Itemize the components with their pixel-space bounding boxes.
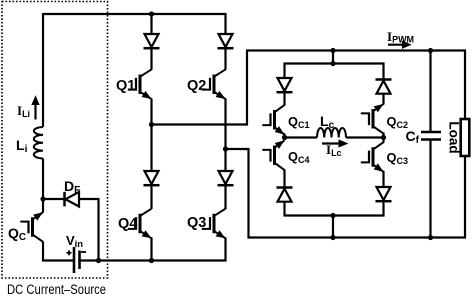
wire Q2 midpoint to bottom rail <box>226 148 250 150</box>
transistor Q4 (IGBT) <box>128 209 152 239</box>
wire Q2 emitter to midpoint <box>224 99 226 151</box>
wire midpoint rail to output riser <box>152 123 249 125</box>
wire left vertical from top rail to Li <box>42 13 44 127</box>
inductor Lc <box>317 128 346 138</box>
transistor QC4 (IGBT) <box>262 140 284 170</box>
wire battery to Q4/Q3 legs bottom <box>81 259 227 261</box>
wire diode to Q3 collector <box>224 186 226 210</box>
wire inner bottom riser <box>332 216 334 238</box>
svg-text:Q1: Q1 <box>116 78 135 94</box>
wire Q4 emitter to bottom <box>150 238 152 262</box>
node Cf bottom junction <box>428 235 433 240</box>
node bottom rail / inner riser junction <box>330 235 335 240</box>
wire Q1 leg top <box>150 14 152 35</box>
node inner bridge left midpoint <box>282 135 287 140</box>
wire diode to QC2 emitter <box>382 93 384 104</box>
svg-text:Q4: Q4 <box>118 216 137 232</box>
node output rail / inner bridge riser <box>330 48 335 53</box>
diode above QC1 <box>277 78 293 92</box>
svg-text:Q3: Q3 <box>187 215 206 231</box>
current arrow ILc <box>322 140 347 147</box>
transistor QC (IGBT) <box>20 212 43 242</box>
node top rail / Q1 leg junction <box>149 11 154 16</box>
node inner bridge top rail junction <box>330 61 335 66</box>
diode below QC3 <box>376 187 392 201</box>
wire inner top rail right corner down <box>382 63 384 80</box>
wire QC3 emitter to lower diode <box>382 171 384 188</box>
inductor Li <box>34 127 43 159</box>
diode above Q2 <box>218 34 234 48</box>
wire diode to inner bottom rail <box>283 202 285 217</box>
transistor QC1 (IGBT) <box>262 105 284 135</box>
transistor Q3 (IGBT) <box>202 209 226 239</box>
wire QC1 emitter to left node <box>283 134 285 139</box>
wire Q3 emitter to bottom <box>224 238 226 262</box>
wire diode to Q2 collector <box>224 49 226 70</box>
wire midpoint to Q3 diode <box>224 149 226 172</box>
wire DF anode to right side down to Vin rail <box>79 198 100 200</box>
wire inner bridge riser <box>332 51 334 64</box>
battery Vin <box>67 247 87 273</box>
wire bottom rail <box>248 236 467 238</box>
wire midpoint to Q4 diode <box>150 125 152 172</box>
node inner bridge right midpoint <box>381 135 386 140</box>
diode above QC2 <box>376 80 392 94</box>
diode above Q3 <box>218 171 234 185</box>
wire left node to Lc <box>285 136 318 138</box>
wire Lc to right node <box>346 136 384 138</box>
diode below QC4 <box>277 188 293 202</box>
wire diode to inner bottom rail <box>382 201 384 216</box>
current arrow ILi <box>32 97 39 120</box>
transistor Q1 (IGBT) <box>128 69 152 99</box>
wire diode to Q1 collector <box>150 49 152 70</box>
svg-text:Load: Load <box>446 121 461 153</box>
wire output top rail <box>246 49 466 51</box>
diode DF (freewheeling, pointing left) <box>43 192 79 207</box>
wire node to QC emitter <box>42 199 44 213</box>
wire load branch bottom <box>464 156 466 239</box>
node Q2/Q3 midpoint <box>223 146 228 151</box>
wire right node to QC3 collector <box>382 138 384 143</box>
diode above Q4 <box>144 171 160 185</box>
wire Q2 leg top <box>224 13 226 35</box>
wire QC4 collector to lower diode <box>283 170 285 188</box>
diode above Q1 <box>144 34 160 48</box>
wire Li to DF node <box>42 159 44 201</box>
node Q1/Q4 midpoint <box>149 122 154 127</box>
wire inner bottom rail <box>284 214 385 216</box>
svg-text:Q2: Q2 <box>187 78 206 94</box>
DC current-source dashed enclosure <box>2 2 108 279</box>
node junction DF/QC <box>40 196 45 201</box>
node inner bottom rail junction <box>330 213 335 218</box>
transistor Q2 (IGBT) <box>202 69 226 99</box>
transistor QC2 (IGBT) <box>361 104 384 134</box>
node Cf top junction <box>428 48 433 53</box>
wire Q1 emitter to mid node <box>150 99 152 126</box>
wire load branch top <box>464 50 466 120</box>
wire Cf bottom <box>429 140 431 238</box>
wire inner top rail left corner down <box>283 63 285 79</box>
wire bottom left to battery <box>42 259 73 261</box>
wire inner bridge top rail <box>284 62 385 64</box>
wire QC collector down <box>42 242 44 262</box>
wire diode to Q4 collector <box>150 186 152 210</box>
node junction DF return on Vin rail <box>96 258 101 263</box>
wire diode to QC1 <box>283 92 285 105</box>
node Q4 emitter / bottom wire junction <box>149 258 154 263</box>
transistor QC3 (IGBT) <box>361 142 384 172</box>
capacitor Cf <box>421 132 441 140</box>
wire Cf top <box>429 51 431 133</box>
svg-text:DC Current–Source: DC Current–Source <box>7 282 106 297</box>
wire QC2 collector to right node <box>382 133 384 139</box>
wire top rail <box>43 13 226 15</box>
current arrow IPWM <box>388 41 411 48</box>
load resistor rectangle <box>461 119 470 156</box>
